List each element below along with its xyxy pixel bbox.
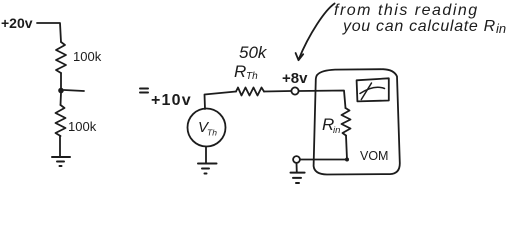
terminal open circle (bottom) xyxy=(293,156,300,163)
svg-text:+20v: +20v xyxy=(1,15,33,31)
wire lower resistor to ground xyxy=(59,136,61,157)
svg-text:Th: Th xyxy=(246,71,258,82)
wire source top to R_Th xyxy=(205,92,237,110)
wire R_Th to node xyxy=(264,90,291,93)
svg-text:+8v: +8v xyxy=(282,70,308,87)
svg-text:in: in xyxy=(496,21,506,36)
equals sign xyxy=(140,89,148,93)
wire resistor to node xyxy=(60,73,62,88)
VOM enclosure box xyxy=(314,69,400,174)
wire source bottom to ground xyxy=(205,147,207,164)
svg-text:50k: 50k xyxy=(239,43,268,62)
junction node xyxy=(58,88,64,94)
ground (VOM) xyxy=(291,173,305,183)
wire from +20v to top of divider xyxy=(37,23,61,42)
ground (source) xyxy=(198,164,217,174)
resistor R lower 100k xyxy=(56,105,66,136)
wire terminal to ground xyxy=(296,163,298,173)
svg-text:VOM: VOM xyxy=(360,149,388,163)
annotation arrowhead xyxy=(296,53,304,60)
resistor R_in xyxy=(342,108,351,136)
svg-text:in: in xyxy=(333,125,340,136)
wire node to lower resistor xyxy=(60,93,63,105)
meter M xyxy=(357,78,389,101)
resistor R upper 100k xyxy=(56,42,66,73)
svg-text:from this reading: from this reading xyxy=(334,2,479,19)
resistor R_Th xyxy=(236,88,264,96)
svg-text:+10v: +10v xyxy=(151,92,192,109)
meter arc xyxy=(360,87,385,93)
meter needle xyxy=(361,83,371,100)
annotation arrow xyxy=(299,4,335,60)
svg-text:Th: Th xyxy=(207,128,217,138)
svg-text:you can calculate R: you can calculate R xyxy=(342,18,496,35)
svg-text:100k: 100k xyxy=(68,119,97,134)
svg-text:100k: 100k xyxy=(73,49,102,64)
wire bottom terminal to R_in bottom xyxy=(300,159,347,161)
ground (left divider) xyxy=(52,157,70,166)
node +8v open circle xyxy=(291,87,298,94)
wire node into VOM to R_in top xyxy=(299,91,346,109)
junction on bottom rail xyxy=(345,158,349,162)
source V_Th circle xyxy=(188,109,226,147)
svg-text:R: R xyxy=(234,62,246,81)
wire stub right of node xyxy=(64,90,84,91)
wire R_in bottom to bottom rail xyxy=(346,136,347,160)
